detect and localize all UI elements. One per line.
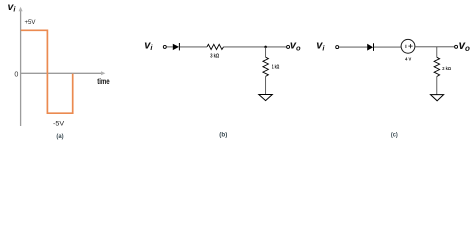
resistor 2 kOhm shunt (c) — [434, 57, 440, 76]
wire terminal to diode (c) — [339, 46, 367, 48]
resistor 3 kOhm series (b) — [207, 44, 224, 49]
diode D2 (c) — [367, 43, 373, 51]
waveform square wave (orange) — [21, 30, 73, 113]
resistor 1 kOhm shunt (b) — [263, 57, 269, 76]
ground (c) — [431, 95, 444, 101]
output terminal (b) — [287, 45, 290, 48]
wire diode to resistor (b) — [180, 46, 207, 48]
output terminal (c) — [455, 45, 458, 48]
ground (b) — [259, 95, 273, 101]
svg-text:vi: vi — [8, 1, 17, 14]
svg-text:vi: vi — [144, 39, 153, 52]
dc source plus terminal mark (c) — [408, 44, 412, 48]
wire junction down to shunt resistor (c) — [436, 47, 438, 58]
dc source minus terminal mark (c) — [405, 45, 407, 48]
diode D1 (b) — [173, 43, 180, 50]
svg-text:3 kΩ: 3 kΩ — [210, 54, 219, 60]
svg-text:2 kΩ: 2 kΩ — [442, 66, 451, 72]
wire diode to dc source (c) — [374, 46, 401, 48]
axis vertical (a) — [19, 7, 23, 126]
svg-text:(a): (a) — [56, 133, 63, 140]
wire terminal to diode (b) — [166, 46, 172, 48]
wire junction down to shunt resistor (b) — [265, 47, 267, 57]
node junction dot (b) — [264, 46, 267, 49]
svg-text:0: 0 — [14, 69, 18, 78]
svg-text:1 kΩ: 1 kΩ — [272, 65, 280, 71]
svg-text:vi: vi — [316, 40, 325, 53]
wire dc source to output terminal (c) — [415, 46, 455, 48]
svg-text:4 V: 4 V — [405, 57, 411, 62]
svg-text:time: time — [97, 77, 110, 86]
svg-text:vo: vo — [290, 40, 301, 53]
svg-text:-5V: -5V — [53, 120, 65, 127]
wire shunt resistor to ground (c) — [436, 77, 438, 95]
wire resistor to output terminal (b) — [224, 46, 287, 48]
axis horizontal time (a) — [21, 71, 106, 75]
input terminal (c) — [336, 46, 339, 49]
input terminal (b) — [163, 45, 166, 48]
wire shunt resistor to ground (b) — [265, 76, 267, 94]
svg-text:vo: vo — [459, 40, 470, 53]
dc source circle 4V (c) — [401, 39, 415, 53]
svg-text:(b): (b) — [219, 131, 227, 138]
svg-text:+5V: +5V — [25, 19, 37, 26]
svg-text:(c): (c) — [391, 131, 398, 138]
